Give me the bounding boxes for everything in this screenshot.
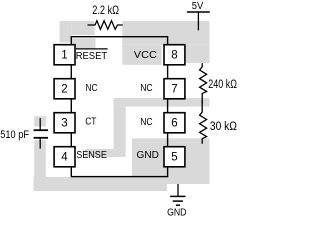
resistor R2 240 kOhm (vertical) (200, 63, 207, 103)
resistor R3 30 kOhm (vertical) (200, 101, 207, 144)
svg-text:SENSE: SENSE (76, 149, 107, 161)
ground symbol bars (170, 195, 185, 197)
pin box 8 (164, 45, 185, 65)
capacitor C1 510 pF top lead (39, 118, 41, 130)
gray trace: SENSE strip from divider tap (114, 98, 210, 107)
svg-text:240 kΩ: 240 kΩ (208, 79, 237, 91)
svg-text:6: 6 (171, 118, 177, 130)
pin box 3 (54, 113, 75, 133)
capacitor C1 bottom lead (39, 138, 41, 148)
gray trace: SENSE elbow down (114, 107, 126, 157)
svg-text:7: 7 (171, 84, 177, 96)
gray trace: SENSE stub toward pin 4 (85, 149, 114, 157)
gray trace: CT capacitor bar (34, 116, 46, 126)
pin box 5 (164, 147, 185, 167)
svg-text:VCC: VCC (134, 49, 158, 61)
svg-text:GND: GND (137, 149, 160, 161)
svg-text:4: 4 (61, 152, 68, 164)
pin box 1 (54, 45, 75, 65)
svg-text:CT: CT (85, 116, 97, 128)
gray trace: tab above RESET label (72, 38, 96, 48)
ground symbol stem (177, 184, 179, 196)
svg-text:30 kΩ: 30 kΩ (210, 121, 237, 133)
pin box 4 (54, 147, 75, 167)
resistor R1 2.2 kOhm (horizontal, in gray gap) (88, 21, 123, 30)
pin box 6 (164, 113, 185, 133)
svg-text:3: 3 (61, 118, 67, 130)
svg-text:2: 2 (61, 84, 67, 96)
pin box 2 (54, 79, 75, 99)
label RESET overbar (76, 48, 108, 50)
gray trace: bottom band (34, 177, 168, 191)
svg-text:NC: NC (140, 82, 153, 94)
capacitor C1 top plate (34, 129, 48, 131)
gray trace: top band right of resistor gap plus VCC block (122, 21, 209, 45)
svg-text:5V: 5V (192, 1, 204, 12)
svg-text:1: 1 (61, 50, 67, 62)
svg-text:RESET: RESET (76, 50, 108, 62)
pin box 7 (164, 79, 185, 99)
chip body outline U1 (71, 37, 167, 177)
svg-text:2.2 kΩ: 2.2 kΩ (92, 3, 119, 17)
svg-text:NC: NC (140, 116, 153, 128)
svg-text:NC: NC (86, 82, 98, 94)
svg-text:5: 5 (171, 152, 177, 164)
gray trace: GND block around pin 5 (132, 138, 210, 184)
capacitor C1 bottom plate (34, 137, 48, 139)
svg-text:GND: GND (167, 207, 187, 219)
gray trace: 5V-to-RESET top band left of resistor gap (60, 21, 72, 43)
svg-text:8: 8 (171, 50, 177, 62)
svg-text:510 pF: 510 pF (0, 129, 29, 141)
